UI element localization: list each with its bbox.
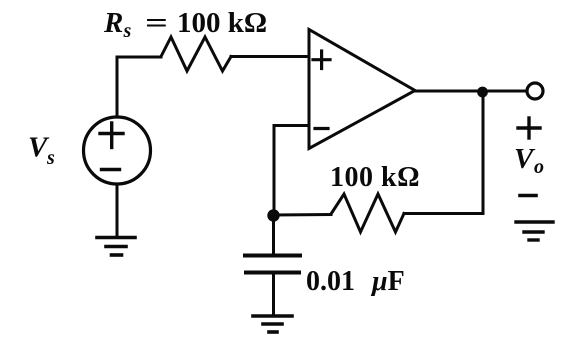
capacitor C1 top plate xyxy=(245,254,300,258)
capacitor C1 bottom plate xyxy=(246,271,299,275)
Vo plus sign xyxy=(518,118,540,138)
svg-text:=: = xyxy=(145,7,168,39)
wire node A to capacitor xyxy=(272,215,275,254)
op-amp plus input symbol xyxy=(313,51,330,69)
svg-text:100 kΩ: 100 kΩ xyxy=(330,162,420,193)
resistor R2 (100 k feedback) xyxy=(331,194,404,232)
wire from Rs to op-amp non-inverting input xyxy=(231,55,309,58)
ground G1 below Vs xyxy=(97,238,135,256)
wire from Vs bottom to ground xyxy=(116,185,119,237)
svg-text:s: s xyxy=(123,20,132,42)
op-amp U1 triangle xyxy=(309,30,415,149)
Vs minus polarity xyxy=(102,168,120,171)
svg-text:0.01: 0.01 xyxy=(306,266,355,297)
voltage source V1 (Vs) circle xyxy=(84,117,151,184)
wire op-amp output xyxy=(415,90,527,93)
resistor R1 (Rs) xyxy=(161,37,231,71)
wire from Vs top to resistor Rs xyxy=(117,57,161,116)
svg-text:μF: μF xyxy=(370,266,405,297)
wire capacitor to ground xyxy=(272,274,275,315)
svg-text:R: R xyxy=(103,7,123,39)
Vo minus sign xyxy=(520,194,536,198)
output node junction dot xyxy=(477,87,488,98)
ground G2 below capacitor xyxy=(253,316,292,332)
svg-text:s: s xyxy=(46,147,55,169)
Vs plus polarity xyxy=(100,123,123,148)
wire node A to feedback resistor xyxy=(273,213,331,217)
svg-text:V: V xyxy=(514,143,536,175)
ground G3 reference below Vo xyxy=(516,222,553,240)
wire from inverting input to node A xyxy=(274,126,309,214)
output terminal circle xyxy=(527,83,543,99)
op-amp minus input symbol xyxy=(315,127,328,130)
node A junction dot xyxy=(267,209,279,221)
svg-text:o: o xyxy=(534,156,544,178)
wire feedback resistor to output node xyxy=(404,92,483,214)
svg-text:100 kΩ: 100 kΩ xyxy=(177,7,267,39)
